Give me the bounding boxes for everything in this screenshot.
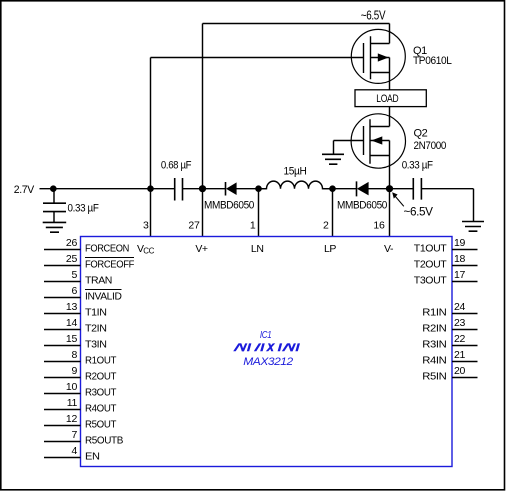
svg-text:25: 25: [66, 253, 78, 265]
svg-text:R2OUT: R2OUT: [85, 371, 117, 383]
svg-text:0.68 µF: 0.68 µF: [161, 159, 192, 171]
svg-text:Q2: Q2: [414, 128, 428, 140]
svg-text:26: 26: [66, 237, 78, 249]
svg-text:T2OUT: T2OUT: [414, 259, 447, 271]
svg-text:T3IN: T3IN: [85, 339, 107, 351]
svg-text:LOAD: LOAD: [376, 93, 398, 105]
svg-text:FORCEOFF: FORCEOFF: [85, 259, 134, 271]
svg-text:EN: EN: [85, 451, 100, 463]
svg-text:16: 16: [373, 220, 385, 232]
svg-text:R1OUT: R1OUT: [85, 355, 117, 367]
svg-text:T2IN: T2IN: [85, 323, 107, 335]
svg-text:7: 7: [71, 429, 77, 441]
svg-text:CC: CC: [143, 247, 154, 256]
svg-text:T1OUT: T1OUT: [414, 243, 447, 255]
svg-text:R4OUT: R4OUT: [85, 403, 117, 415]
svg-text:TRAN: TRAN: [85, 275, 112, 287]
svg-text:~6.5V: ~6.5V: [361, 9, 386, 23]
svg-text:V-: V-: [384, 243, 394, 255]
svg-text:R1IN: R1IN: [422, 307, 446, 319]
svg-text:MAX3212: MAX3212: [243, 356, 293, 368]
svg-text:22: 22: [454, 333, 466, 345]
svg-text:13: 13: [66, 301, 78, 313]
svg-text:R2IN: R2IN: [422, 323, 446, 335]
svg-text:0.33 µF: 0.33 µF: [68, 203, 100, 215]
svg-text:11: 11: [67, 397, 78, 409]
svg-text:0.33 µF: 0.33 µF: [402, 160, 434, 172]
svg-text:LP: LP: [324, 243, 336, 255]
svg-text:14: 14: [66, 317, 78, 329]
svg-text:~6.5V: ~6.5V: [404, 207, 434, 219]
svg-text:TP0610L: TP0610L: [413, 55, 452, 67]
svg-text:18: 18: [454, 253, 466, 265]
svg-text:2.7V: 2.7V: [14, 184, 35, 196]
svg-text:R3IN: R3IN: [422, 339, 446, 351]
svg-text:10: 10: [66, 381, 78, 393]
svg-text:3: 3: [143, 220, 149, 232]
svg-text:8: 8: [71, 349, 77, 361]
svg-text:T3OUT: T3OUT: [414, 275, 447, 287]
svg-text:17: 17: [454, 269, 466, 281]
svg-text:R4IN: R4IN: [422, 355, 446, 367]
svg-text:21: 21: [454, 349, 466, 361]
svg-text:2: 2: [323, 220, 329, 232]
svg-text:6: 6: [71, 285, 77, 297]
svg-text:MMBD6050: MMBD6050: [204, 199, 254, 211]
svg-text:R5IN: R5IN: [422, 371, 446, 383]
svg-text:4: 4: [71, 445, 77, 457]
svg-text:1: 1: [250, 220, 256, 232]
svg-text:27: 27: [188, 220, 200, 232]
svg-text:19: 19: [454, 237, 466, 249]
svg-text:15: 15: [66, 333, 78, 345]
svg-text:24: 24: [454, 301, 466, 313]
svg-text:IC1: IC1: [260, 330, 272, 341]
svg-text:20: 20: [454, 365, 466, 377]
svg-text:R3OUT: R3OUT: [85, 387, 117, 399]
svg-text:MMBD6050: MMBD6050: [337, 199, 387, 211]
svg-text:23: 23: [454, 317, 466, 329]
svg-text:LN: LN: [251, 243, 264, 255]
svg-text:V+: V+: [195, 243, 208, 255]
svg-text:9: 9: [71, 365, 77, 377]
svg-text:FORCEON: FORCEON: [85, 243, 129, 255]
svg-text:T1IN: T1IN: [85, 307, 107, 319]
svg-text:5: 5: [71, 269, 77, 281]
svg-text:INVALID: INVALID: [85, 291, 122, 303]
svg-text:R5OUTB: R5OUTB: [85, 435, 123, 447]
svg-text:R5OUT: R5OUT: [85, 419, 117, 431]
svg-text:2N7000: 2N7000: [414, 140, 447, 152]
svg-text:12: 12: [66, 413, 78, 425]
svg-text:15µH: 15µH: [284, 165, 307, 177]
